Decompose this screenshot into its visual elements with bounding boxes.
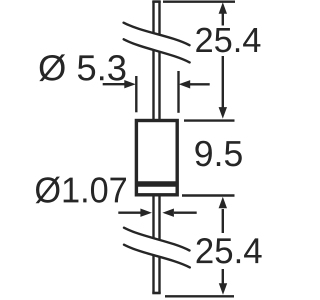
lead diameter right arrowhead — [162, 209, 174, 217]
top break symbol (white gap band) — [124, 23, 190, 63]
lead (top segment, left line) — [152, 1, 154, 120]
extension line at lead bottom — [165, 295, 234, 297]
bottom lead-length dimension line lower segment — [222, 269, 224, 284]
top lead-length dimension line upper segment — [222, 12, 224, 26]
lead top end cap — [152, 0, 160, 3]
cathode band — [138, 181, 176, 187]
lead (bottom segment, left line) — [152, 195, 154, 294]
top dimension up arrowhead — [219, 2, 227, 14]
dimension text 9.5 — [195, 141, 241, 167]
lead diameter left arrowhead — [140, 209, 152, 217]
extension line at body top — [184, 119, 235, 121]
top break lower line — [124, 39, 190, 62]
dimension text 25.4 top — [196, 28, 260, 53]
dimension text Ø 5.3 — [39, 54, 125, 81]
body diameter extension line right — [177, 71, 179, 113]
dimension text Ø1.07 — [36, 177, 126, 204]
lead diameter right arrow line — [174, 211, 197, 213]
lead (top segment, right line) — [158, 1, 160, 120]
bottom lead-length dimension line upper segment — [222, 209, 224, 233]
lead diameter left arrow line — [118, 211, 141, 213]
top dimension down arrowhead — [219, 107, 227, 119]
top break upper line — [124, 23, 190, 46]
body diameter left arrowhead — [124, 80, 136, 88]
body diameter right arrowhead — [179, 80, 191, 88]
body diameter left arrow line — [103, 83, 125, 85]
lead (bottom segment, right line) — [158, 195, 160, 294]
body diameter extension line left — [135, 76, 137, 112]
dimension text 25.4 bottom — [197, 238, 262, 263]
extension line at lead top — [163, 1, 235, 3]
lead bottom end cap — [152, 292, 160, 295]
diode body outline — [136, 121, 177, 195]
body diameter right arrow line — [190, 83, 210, 85]
bottom dimension up arrowhead — [219, 197, 227, 209]
top lead-length dimension line lower segment — [222, 56, 224, 108]
bottom break symbol (white gap band) — [124, 228, 190, 268]
bottom break upper line — [124, 228, 190, 251]
bottom break lower line — [124, 245, 190, 268]
extension line at body bottom — [182, 194, 235, 196]
bottom dimension down arrowhead — [219, 283, 227, 295]
